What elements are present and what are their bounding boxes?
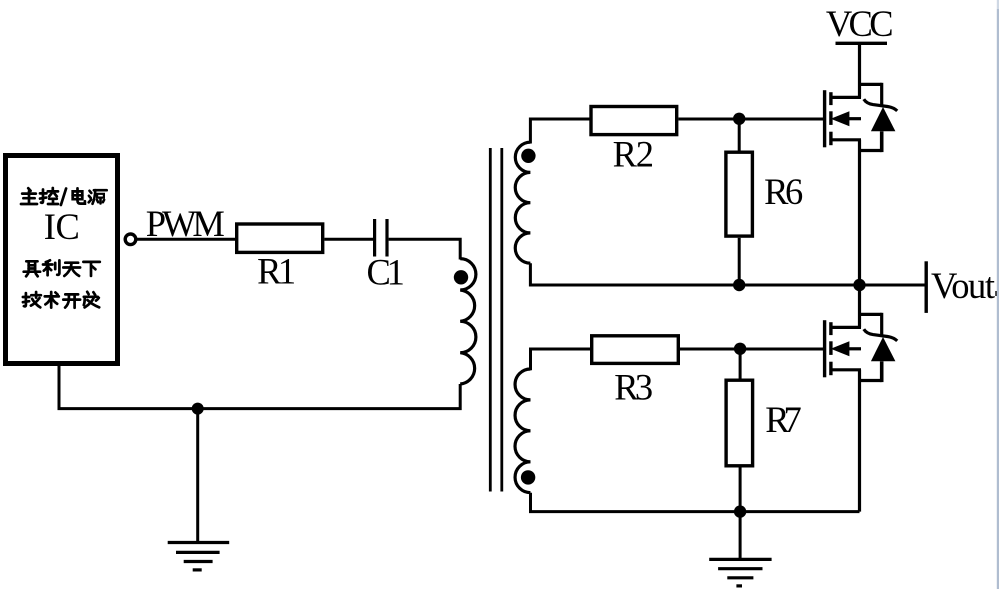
diode D1 triangle [871, 107, 896, 131]
diode D2 cathode (zener-style) [864, 329, 897, 341]
transformer T1 core [490, 148, 502, 492]
junction R7 bottom / ground node [734, 505, 746, 517]
IC U1 label line1 主控/电源 [21, 188, 107, 205]
svg-text:Vout: Vout [931, 265, 995, 306]
wire Q2 source to ground bus [858, 370, 861, 512]
ground GND1 [168, 543, 230, 570]
wire R2 to gate of Q1 [678, 118, 823, 121]
node Vout subscript fragment [995, 291, 998, 296]
ground GND2 [709, 559, 771, 586]
transformer T1 primary winding [460, 259, 476, 384]
diode D1 (Q1 body diode) connections [860, 83, 882, 152]
transistor Q2 source stub [831, 368, 861, 371]
junction node R3/R7 [734, 343, 746, 355]
resistor R1 [237, 224, 323, 252]
capacitor C1 [375, 219, 387, 257]
transistor Q1 (top MOSFET) gate bar [823, 90, 826, 147]
wire VCC to Q1 drain [858, 43, 861, 97]
wire Q1 source to Vout bus [858, 140, 861, 285]
svg-text:R7: R7 [765, 399, 802, 440]
wire primary bottom to ground bus [59, 364, 460, 409]
junction node R2/R6 [733, 113, 745, 125]
transformer T1 secondary winding S2 (bottom) [515, 369, 530, 493]
svg-text:R2: R2 [613, 134, 654, 175]
wire secondary S2 bottom to ground bus [531, 493, 860, 512]
wire secondary S1 top to R2 [530, 119, 589, 144]
transformer T1 secondary S2 polarity dot [521, 470, 535, 484]
svg-text:C1: C1 [367, 251, 405, 292]
wire junction to ground GND2 [739, 512, 742, 559]
svg-text:R1: R1 [257, 250, 296, 291]
wire junction to ground GND1 [196, 409, 199, 542]
IC U1 label line3 其利天下 [24, 260, 100, 276]
transistor Q2 body stub with arrow [831, 341, 861, 356]
pin PWM output (open circle) [125, 234, 136, 245]
transistor Q1 body stub with arrow [831, 111, 861, 126]
svg-text:VCC: VCC [826, 3, 894, 44]
junction R6 bottom on Vout bus [733, 279, 745, 291]
junction Q1 source / Q2 drain on Vout bus [853, 279, 865, 291]
transistor Q1 drain stub [831, 96, 861, 99]
transistor Q1 source stub [831, 138, 861, 141]
resistor R3 [592, 336, 679, 364]
transformer T1 secondary S1 polarity dot [521, 149, 535, 163]
diode D2 (Q2 body diode) connections [860, 313, 882, 382]
wire R3 to gate of Q2 [680, 348, 823, 351]
power VCC terminal bar [836, 42, 888, 45]
svg-text:R6: R6 [764, 171, 803, 212]
transistor Q2 channel dashes [829, 322, 832, 375]
diode D1 cathode (zener-style) [864, 99, 897, 111]
scrollbar strip at right edge [997, 0, 999, 589]
transformer T1 primary polarity dot [454, 270, 468, 284]
IC U1 label line4 技术开发 [23, 292, 99, 308]
wire R1 to C1 [324, 238, 373, 241]
wire R7 bottom to ground bus [739, 468, 742, 512]
wire junction to R6 top [738, 119, 741, 152]
wire secondary S2 top to R3 [531, 349, 591, 370]
diode D2 triangle [871, 337, 896, 361]
IC U1 box (主控/电源 IC) [6, 156, 118, 364]
wire PWM pin to R1 [136, 238, 236, 241]
transistor Q2 drain stub [831, 326, 861, 329]
wire secondary S1 bottom to Vout bus [530, 263, 926, 285]
junction primary ground node [192, 403, 204, 415]
wire R6 bottom to Vout bus [738, 238, 741, 285]
transistor Q2 (bottom MOSFET) gate bar [823, 320, 826, 377]
transistor Q1 channel dashes [829, 92, 832, 145]
svg-text:R3: R3 [614, 367, 653, 408]
wire C1 to transformer primary [389, 239, 461, 259]
resistor R2 [591, 107, 677, 135]
svg-text:IC: IC [44, 206, 80, 247]
wire Q2 drain from Vout bus [858, 285, 861, 327]
resistor R7 [726, 380, 753, 466]
terminal Vout bar [925, 261, 928, 313]
transformer T1 secondary winding S1 (top) [515, 142, 530, 263]
wire junction to R7 top [739, 349, 742, 380]
resistor R6 [726, 152, 753, 236]
